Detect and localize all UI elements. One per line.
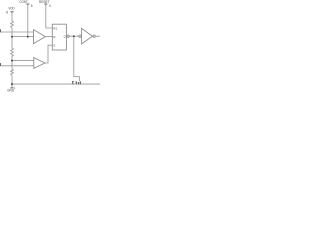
svg-text:8: 8 <box>6 11 8 15</box>
svg-text:CONT: CONT <box>19 0 28 4</box>
svg-text:S: S <box>53 43 55 47</box>
svg-text:VDD: VDD <box>8 6 15 10</box>
svg-text:R1: R1 <box>53 26 57 30</box>
svg-text:5: 5 <box>31 4 33 8</box>
svg-text:4: 4 <box>49 4 51 8</box>
svg-text:Q: Q <box>64 35 66 39</box>
svg-text:GND: GND <box>7 89 15 93</box>
